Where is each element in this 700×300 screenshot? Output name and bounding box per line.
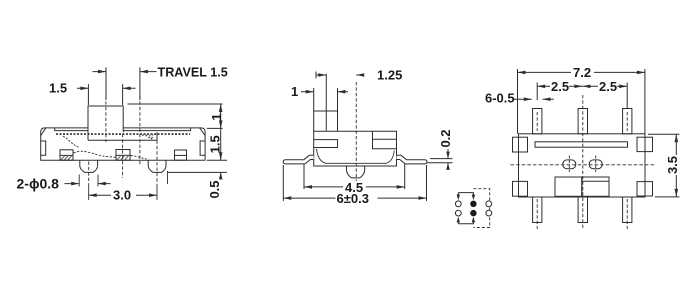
svg-text:0.5: 0.5 [207,180,222,198]
svg-text:2.5: 2.5 [551,79,569,94]
svg-text:7.2: 7.2 [573,65,591,80]
svg-text:3.5: 3.5 [665,156,680,174]
svg-text:2-ϕ0.8: 2-ϕ0.8 [17,176,60,192]
svg-text:TRAVEL 1.5: TRAVEL 1.5 [158,66,228,80]
svg-text:3.0: 3.0 [113,188,131,203]
svg-text:1: 1 [209,113,224,120]
svg-text:1.25: 1.25 [377,68,402,83]
svg-text:2.5: 2.5 [599,79,617,94]
svg-text:1.5: 1.5 [49,81,67,96]
svg-text:1.5: 1.5 [207,135,222,153]
svg-text:0.2: 0.2 [438,129,453,147]
svg-text:6-0.5: 6-0.5 [485,91,515,106]
svg-text:6±0.3: 6±0.3 [337,191,369,206]
svg-text:1: 1 [291,84,298,99]
